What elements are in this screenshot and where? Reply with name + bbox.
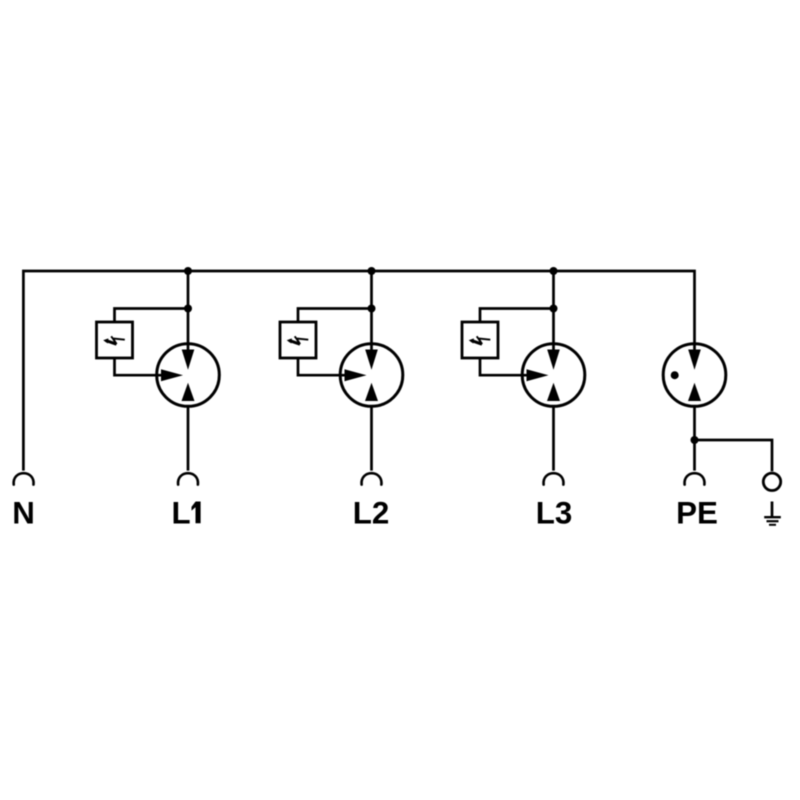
svg-text:L: L [172, 496, 191, 531]
svg-text:L2: L2 [353, 496, 390, 531]
svg-text:PE: PE [676, 496, 718, 531]
svg-text:N: N [12, 496, 35, 531]
svg-text:L3: L3 [536, 496, 573, 531]
